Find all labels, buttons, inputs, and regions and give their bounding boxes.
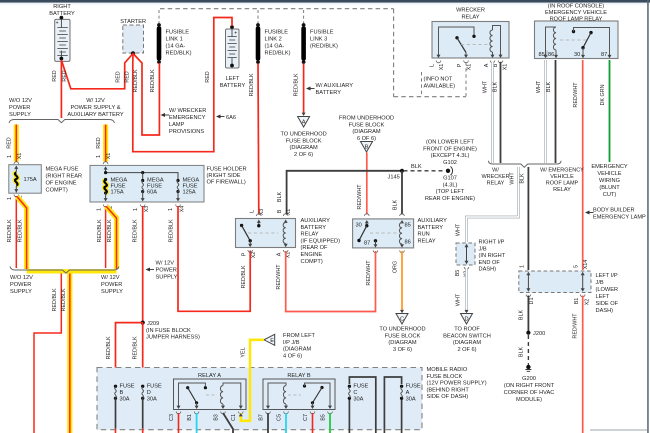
svg-text:125A: 125A [183,190,196,196]
wire RED relay B pin C7 to page bottom [312,413,314,433]
wire WHT brace to right I/P J/B [467,167,519,242]
svg-text:W/ 12V: W/ 12V [156,261,175,267]
svg-text:CUT): CUT) [603,192,617,198]
svg-text:RED/BLK): RED/BLK) [166,51,192,57]
svg-text:B1: B1 [187,414,193,421]
svg-text:WHT: WHT [483,80,489,93]
svg-text:(IN ROOF CONSOLE): (IN ROOF CONSOLE) [548,3,605,9]
svg-text:ROOF LAMP RELAY: ROOF LAMP RELAY [550,17,603,23]
svg-text:2 OF 6): 2 OF 6) [294,152,313,158]
wire RED/BLK fusible link 3 to triangle A [303,64,305,115]
svg-text:B: B [120,390,124,396]
svg-text:1: 1 [168,208,174,211]
svg-text:RELAY: RELAY [461,15,479,21]
svg-text:D: D [464,317,468,323]
svg-text:VEHICLE: VEHICLE [550,174,574,180]
svg-text:RED: RED [125,71,131,82]
page footer rule (bottom right) [590,429,647,431]
svg-text:BLK: BLK [411,164,422,170]
svg-text:OF FIREWALL): OF FIREWALL) [207,180,246,186]
right battery [55,16,70,62]
fusible link 3 [301,27,306,61]
wire BLK left I/P J/B to J200 [527,296,529,333]
svg-text:(ON RIGHT FRONT: (ON RIGHT FRONT [504,383,555,389]
run relay pin 87 contact [374,239,377,242]
svg-text:6A6: 6A6 [226,115,236,121]
svg-text:85: 85 [539,52,545,58]
svg-text:(IN FUSE BLOCK: (IN FUSE BLOCK [146,328,191,334]
svg-text:BATTERY: BATTERY [418,225,444,231]
wire RED/BLK fusible link 2 to aux battery relay pin L [257,64,260,215]
wire RED/BLK mega fuse to brace (thin) [15,196,17,268]
svg-text:(DIAGRAM: (DIAGRAM [289,145,318,151]
svg-text:A: A [276,252,282,256]
svg-text:P: P [242,252,248,256]
svg-text:AUXILIARY: AUXILIARY [418,218,448,224]
svg-text:ORG: ORG [393,261,399,273]
svg-text:1: 1 [96,208,102,211]
wire LT BLU relay A pin B1 to page bottom [196,413,198,433]
svg-text:WHT: WHT [456,293,462,306]
svg-text:B7: B7 [258,414,264,421]
svg-text:RELAY: RELAY [553,187,571,193]
svg-text:TO UNDERHOOD: TO UNDERHOOD [379,327,425,333]
svg-text:(EXCEPT 4.3L): (EXCEPT 4.3L) [431,153,470,159]
relay B switch [303,384,306,387]
svg-text:SUPPLY: SUPPLY [101,289,123,295]
svg-text:RELAY B: RELAY B [287,373,311,379]
svg-text:4 OF 6): 4 OF 6) [283,353,302,359]
svg-text:FUSE: FUSE [120,384,135,390]
connector triangle B [361,142,373,153]
svg-text:+: + [56,20,59,26]
svg-text:30: 30 [574,52,580,58]
svg-text:X3: X3 [259,209,265,216]
svg-text:X1: X1 [286,209,292,216]
svg-text:POWER: POWER [10,282,31,288]
svg-text:LEFT: LEFT [226,76,240,82]
wire GRN relay B pin B5 to page bottom [329,413,331,433]
svg-text:(ON LOWER LEFT: (ON LOWER LEFT [426,140,475,146]
svg-text:C3: C3 [169,414,175,421]
fuse element 175A highlighted [15,173,18,186]
wire WHT wrecker relay pin A to brace [491,62,494,163]
wire LT BLU relay B pin C5 to page bottom [285,413,287,433]
svg-text:BLK: BLK [277,192,283,203]
brace: merge of power supply options [27,269,117,273]
svg-text:A: A [302,120,306,126]
svg-text:RED/WHT: RED/WHT [366,260,372,286]
starter terminal node [131,51,135,55]
svg-text:J145: J145 [388,175,400,181]
svg-text:BATTERY: BATTERY [49,11,75,17]
svg-text:WHT: WHT [456,223,462,236]
svg-text:W/ 12V: W/ 12V [86,98,105,104]
svg-text:FUSE HOLDER: FUSE HOLDER [207,167,247,173]
roof lamp relay switch [572,30,575,33]
svg-text:X1: X1 [106,153,112,160]
svg-text:85: 85 [405,223,411,229]
label: W/ WRECKER EMERGENCY LAMP PROVISIONS [161,113,166,117]
svg-text:(DIAGRAM: (DIAGRAM [352,129,381,135]
svg-text:30A: 30A [406,396,416,402]
svg-text:(BEHIND RIGHT: (BEHIND RIGHT [427,387,470,393]
right I/P J/B (dashed box) [456,243,475,265]
wire RED/BLK fuse holder 175A to brace (highlighted) [106,207,116,270]
svg-text:J200: J200 [533,331,545,337]
junction J209 [141,321,145,325]
dashed cut line (top power distribution) [160,8,394,10]
svg-text:FUSE: FUSE [406,384,421,390]
svg-text:STARTER: STARTER [120,19,146,25]
svg-text:30A: 30A [120,396,130,402]
svg-text:C1: C1 [231,414,237,421]
svg-text:EMERGENCY: EMERGENCY [169,115,206,121]
svg-text:COMPT): COMPT) [301,259,323,265]
ground splice G102/G107 [446,169,450,173]
relay A coil [220,386,223,405]
fuse D 30A [141,385,144,388]
svg-text:FUSIBLE: FUSIBLE [310,30,334,36]
wrecker relay internal switch [439,27,475,55]
svg-text:B5: B5 [320,414,326,421]
svg-text:BLK: BLK [393,200,399,211]
svg-text:ENGINE: ENGINE [301,252,323,258]
wire WHT roof relay pin 85 to brace [544,60,547,163]
svg-text:OF ENGINE: OF ENGINE [46,181,77,187]
svg-text:2 OF 6): 2 OF 6) [457,347,476,353]
svg-text:BATTERY: BATTERY [220,83,246,89]
svg-text:VEHICLE: VEHICLE [597,171,621,177]
svg-text:D1: D1 [529,298,535,305]
svg-text:J/B: J/B [596,280,604,286]
svg-text:FUSE BLOCK: FUSE BLOCK [385,333,421,339]
svg-text:FROM UNDERHOOD: FROM UNDERHOOD [339,116,394,122]
relay A pin cups/labels [176,412,181,414]
svg-text:POWER SUPPLY &: POWER SUPPLY & [71,105,121,111]
connector triangle E [264,334,275,345]
svg-text:EMERGENCY VEHICLE: EMERGENCY VEHICLE [545,10,607,16]
svg-text:ROOF LAMP: ROOF LAMP [546,181,579,187]
svg-text:FROM LEFT: FROM LEFT [283,333,316,339]
svg-text:(RED/BLK): (RED/BLK) [310,44,338,50]
connector triangle D [461,314,473,325]
svg-text:EMERGENCY: EMERGENCY [591,164,628,170]
svg-text:RED/BLK: RED/BLK [133,219,139,242]
fusible link 2 [256,27,261,61]
svg-text:RELAY A: RELAY A [198,373,221,379]
svg-text:FUSE BLOCK: FUSE BLOCK [349,122,385,128]
wire RED/BLK fuse holder 125A to aux battery relay pin P [178,206,250,311]
wire RED/BLK starter to fusible link 1 [133,54,159,136]
svg-text:175A: 175A [111,190,124,196]
svg-text:RED/BLK: RED/BLK [7,219,13,242]
svg-text:LINK 1: LINK 1 [166,37,183,43]
wire RED/WHT aux relay pin A to run relay pin 87 [286,251,376,312]
svg-text:RELAY: RELAY [301,232,319,238]
svg-text:(IF EQUIPPED): (IF EQUIPPED) [301,238,341,244]
svg-text:X1: X1 [439,64,445,71]
wire RED/WHT left I/P J/B to page bottom [582,296,584,433]
svg-text:G200: G200 [522,376,536,382]
dashed stub above fusible link 3 [303,10,305,24]
svg-text:POWER: POWER [101,282,122,288]
wire RED/BLK fuse holder 175A to brace (thin) [105,206,107,268]
svg-text:SIDE OF DASH): SIDE OF DASH) [427,394,469,400]
svg-text:RIGHT I/P: RIGHT I/P [479,240,505,246]
wire RED relay A pin C3 to page bottom [178,413,180,433]
relay A switch [179,383,206,406]
svg-text:RED: RED [62,70,68,81]
svg-text:DASH): DASH) [596,308,614,314]
svg-text:30A: 30A [353,396,363,402]
svg-text:SUPPLY: SUPPLY [10,289,32,295]
svg-text:DASH): DASH) [479,267,497,273]
svg-text:AUXILIARY: AUXILIARY [301,218,331,224]
wire RED/BLK below merge brace (highlighted) to page bottom [67,274,72,433]
right page border [647,0,649,433]
svg-text:30A: 30A [147,396,157,402]
svg-text:RED/BLK: RED/BLK [61,288,67,311]
svg-text:EMERGENCY LAMP: EMERGENCY LAMP [593,215,646,221]
svg-text:BLK: BLK [518,347,524,358]
fuse holder internal bus [106,173,178,180]
label: W/ 12V POWER SUPPLY (arrow) [146,268,151,272]
junction J145 [400,169,404,173]
wire RED right battery to starter [61,54,133,89]
svg-text:RED/WHT: RED/WHT [573,82,579,108]
svg-text:CORNER OF HVAC: CORNER OF HVAC [504,390,555,396]
label: W/ AUXILIARY BATTERY [306,87,311,91]
svg-text:E: E [270,338,274,344]
svg-text:RIGHT: RIGHT [53,4,71,10]
wire DK GRN roof relay pin 87 (blunt cut) [609,60,611,162]
svg-text:JUMPER HARNESS): JUMPER HARNESS) [146,335,200,341]
svg-text:3 OF 6): 3 OF 6) [393,347,412,353]
svg-text:RED: RED [7,137,13,148]
junction J200 [526,331,530,335]
svg-text:RED: RED [52,70,58,81]
svg-text:RED: RED [96,137,102,148]
svg-text:RED/BLK): RED/BLK) [265,51,291,57]
svg-text:X1: X1 [467,64,473,71]
svg-text:WRECKER: WRECKER [481,174,509,180]
svg-text:B3: B3 [213,414,219,421]
svg-text:SUPPLY: SUPPLY [156,275,178,281]
svg-text:PROVISIONS: PROVISIONS [169,129,204,135]
svg-text:P: P [457,63,463,67]
wire BLK roof relay pin 86 to brace [555,60,557,163]
svg-text:WIRING: WIRING [599,178,620,184]
aux battery relay box [236,219,296,248]
svg-text:5: 5 [574,265,580,268]
roof lamp relay box [535,21,619,59]
svg-text:POWER: POWER [9,105,30,111]
svg-text:RED/WHT: RED/WHT [572,313,578,339]
svg-text:I/P J/B: I/P J/B [283,340,300,346]
svg-text:C: C [400,317,404,323]
svg-text:W/ EMERGENCY: W/ EMERGENCY [540,168,584,174]
aux battery relay switch arm [240,224,243,227]
roof lamp relay coil [546,27,557,55]
svg-text:RED/BLK: RED/BLK [107,219,113,242]
wire RED/BLK J209 branch to fuse B [116,323,143,385]
svg-text:C: C [353,390,357,396]
svg-text:W/ AUXILIARY: W/ AUXILIARY [316,83,354,89]
top page border bar [0,0,650,3]
wire BLK dashed J200 to G200 [527,335,529,363]
svg-text:(LOWER: (LOWER [596,287,619,293]
svg-text:MODULE): MODULE) [516,397,542,403]
wire RED/BLK below merge brace (thin) to page bottom [34,274,61,433]
fuse B 30A [114,385,117,388]
wire fuse D output to page bottom [142,398,144,428]
svg-text:(IN RIGHT: (IN RIGHT [479,253,506,259]
wire YEL triangle E to relay A pin C1 [241,340,264,421]
wire BLK J145 to aux battery relay pin B [287,171,402,215]
svg-text:FUSE: FUSE [147,384,162,390]
svg-text:FRONT OF ENGINE): FRONT OF ENGINE) [423,146,477,152]
svg-text:POWER: POWER [156,268,177,274]
svg-text:(DIAGRAM: (DIAGRAM [388,340,417,346]
svg-text:G102: G102 [443,160,457,166]
svg-text:BATTERY: BATTERY [301,225,327,231]
svg-text:175A: 175A [24,177,37,183]
svg-text:END OF: END OF [479,260,501,266]
fusible link 1 [157,27,162,61]
fuse holder bottom pin labels [103,205,108,207]
svg-text:BODY BUILDER: BODY BUILDER [593,208,635,214]
wire RED right battery to brace [60,60,62,118]
label: W/ EMERGENCY VEHICLE ROOF LAMP RELAY [540,168,584,194]
svg-text:X3: X3 [144,206,150,213]
svg-text:REAR OF ENGINE): REAR OF ENGINE) [425,196,475,202]
svg-text:W/ 12V: W/ 12V [101,275,120,281]
wire RED starter to left battery [133,54,214,152]
wire BLK J145 to run relay pin 85 [401,171,403,215]
svg-text:RED/BLK: RED/BLK [133,336,139,359]
wire BLK relay B pin B7 to page bottom [267,413,269,433]
svg-text:BLK: BLK [493,82,499,93]
svg-text:LEFT I/P: LEFT I/P [596,273,618,279]
wire ORG run relay pin 86 to triangle C [401,251,403,312]
svg-text:TO UNDERHOOD: TO UNDERHOOD [280,132,326,138]
svg-text:FUSE: FUSE [353,384,368,390]
left battery [226,25,240,68]
svg-text:B: B [365,145,369,151]
svg-text:BEACON SWITCH: BEACON SWITCH [443,333,491,339]
svg-text:X4: X4 [180,206,186,213]
svg-text:BLK: BLK [546,82,552,93]
dashed stub below wrecker relay pin P [465,62,467,97]
svg-text:C7: C7 [303,414,309,421]
svg-text:RED/BLK: RED/BLK [17,219,23,242]
svg-text:RED/BLK: RED/BLK [293,73,299,96]
svg-text:X14: X14 [583,260,589,270]
wire RED/BLK mega fuse to brace (highlighted) [17,197,27,270]
svg-text:G107: G107 [443,176,457,182]
svg-text:X1: X1 [503,64,509,71]
svg-text:RED/WHT: RED/WHT [357,184,363,210]
svg-text:RED/BLK: RED/BLK [106,336,112,359]
fuse holder box [90,165,204,202]
svg-text:(RIGHT SIDE: (RIGHT SIDE [207,173,241,179]
svg-text:SIDE OF: SIDE OF [596,301,619,307]
svg-text:(4.3L): (4.3L) [443,182,458,188]
wire BLK brace to left I/P J/B [527,167,529,270]
svg-text:A: A [406,390,410,396]
svg-text:1: 1 [519,265,525,268]
svg-text:RED/BLK: RED/BLK [97,219,103,242]
wire RED (highlighted) brace to fuse holder [103,125,108,162]
svg-text:RED/BLK: RED/BLK [150,69,156,92]
svg-text:(RIGHT REAR: (RIGHT REAR [46,174,83,180]
svg-text:B: B [277,209,283,213]
wrecker relay box [432,22,509,59]
ground G200 [526,365,530,369]
svg-text:RED: RED [116,71,122,82]
svg-text:W/: W/ [492,168,499,174]
label: 6A6 [216,115,221,119]
svg-text:J209: J209 [147,321,159,327]
svg-text:FUSIBLE: FUSIBLE [265,30,289,36]
svg-text:W/O 12V: W/O 12V [9,98,32,104]
wire RED (highlighted) brace to mega fuse [14,125,19,162]
aux battery run relay box [353,219,414,248]
svg-text:D: D [147,390,151,396]
svg-text:COMPT): COMPT) [46,188,68,194]
svg-text:TO ROOF: TO ROOF [454,327,480,333]
svg-text:L: L [250,210,256,213]
aux battery relay pin L contact [257,214,262,216]
svg-text:(DIAGRAM: (DIAGRAM [453,340,482,346]
svg-text:86: 86 [405,240,411,246]
svg-text:L: L [430,64,436,67]
svg-text:A: A [484,63,490,67]
svg-text:B5: B5 [455,270,461,277]
svg-text:LEFT: LEFT [596,294,610,300]
relay B pin cups/labels [266,412,271,414]
svg-text:(14 GA-: (14 GA- [265,44,285,50]
svg-text:1: 1 [7,155,13,158]
svg-text:W/ WRECKER: W/ WRECKER [169,108,206,114]
aux battery relay coil [283,214,288,216]
run relay coil [400,214,405,216]
svg-text:RED/BLK: RED/BLK [249,73,255,96]
dashed stub above fusible link 2 [257,10,259,24]
svg-text:X2: X2 [584,299,590,306]
svg-text:RELAY: RELAY [487,181,505,187]
svg-text:MOBILE RADIO: MOBILE RADIO [427,367,468,373]
wire WHT right I/P J/B to triangle D [465,268,468,312]
svg-text:SUPPLY: SUPPLY [9,112,31,118]
wire fuse B output to page bottom [115,398,117,428]
svg-text:RELAY: RELAY [418,238,436,244]
brace: wrecker/roof-lamp relay options [489,161,562,168]
wire BLK relay A pin B3 to page bottom [223,413,233,433]
svg-text:RED/BLK: RED/BLK [133,69,139,92]
mega fuse 125A element [176,179,179,182]
svg-text:87: 87 [601,52,607,58]
mega fuse 60A element [141,179,144,182]
svg-text:30: 30 [356,223,362,229]
svg-text:BLK: BLK [518,310,524,321]
fuse A 30A loop [384,377,401,433]
svg-text:B: B [493,63,499,67]
starter (dashed box) [123,25,144,53]
svg-text:RED/BLK: RED/BLK [168,219,174,242]
svg-text:(14 GA-: (14 GA- [166,44,186,50]
